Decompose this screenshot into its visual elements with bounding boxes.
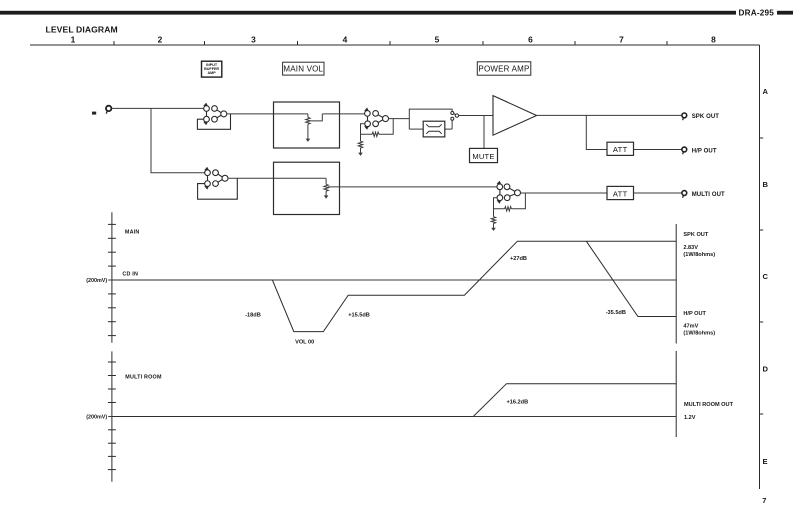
svg-text:H/P OUT: H/P OUT [692,148,717,154]
main volume pot VR1 [306,114,323,142]
svg-text:4: 4 [343,35,348,45]
column numbers 1-8 [71,35,717,45]
svg-text:7: 7 [619,35,624,45]
wire branch down to U2 [151,108,205,172]
svg-text:MULTI ROOM: MULTI ROOM [125,374,162,380]
wire power amp out to SPK [537,114,682,116]
ATT block (headphone) [607,142,634,155]
multi reference line [108,416,676,418]
svg-text:MULTI ROOM OUT: MULTI ROOM OUT [684,402,734,408]
wire branch to headphone attenuator [586,115,607,149]
svg-text:AMP: AMP [207,71,216,75]
MULTI VOL block [274,162,340,214]
svg-text:3: 3 [251,35,256,45]
main axis ticks [108,224,116,335]
source direct switch S1 [451,112,459,121]
MAIN VOL block [274,102,340,148]
ruler half ticks [114,41,667,45]
row letters A-E [763,87,769,466]
wire U4 out to ATT [520,192,607,194]
svg-text:ATT: ATT [613,189,628,198]
wire switch to power amp [459,115,493,117]
svg-text:A: A [763,87,769,96]
multi chart axis [111,351,113,481]
svg-text:1: 1 [71,35,76,45]
svg-text:5: 5 [435,35,440,45]
svg-text:MAIN: MAIN [125,229,140,235]
header bar left segment [0,11,736,15]
svg-text:LEVEL DIAGRAM: LEVEL DIAGRAM [46,25,118,35]
svg-text:DRA-295: DRA-295 [739,9,775,18]
svg-text:6: 6 [528,35,533,45]
main level trace [112,241,676,331]
svg-text:C: C [763,272,769,281]
input terminal [106,106,111,114]
svg-text:+27dB: +27dB [510,256,527,262]
svg-text:B: B [763,180,769,189]
svg-text:2: 2 [158,35,163,45]
SPK OUT terminal [682,113,687,120]
svg-text:-18dB: -18dB [245,312,261,318]
power amp triangle [493,96,537,136]
svg-text:7: 7 [762,496,766,505]
multi volume pot VR2 [324,178,329,198]
filter symbol [426,124,441,134]
svg-text:(1W/8ohms): (1W/8ohms) [683,331,715,337]
svg-text:POWER AMP: POWER AMP [478,64,529,73]
wire branch to mute [483,116,485,149]
wire wiper to U3 [322,113,364,115]
INPUT BUFFER AMP label box [202,61,222,77]
H/P OUT terminal [682,147,687,154]
wire U2 out to multi volume [228,177,326,179]
svg-text:8: 8 [711,35,716,45]
POWER AMP label box [477,62,531,75]
MUTE block [470,148,498,162]
svg-text:47mV: 47mV [683,324,698,330]
U3 feedback resistor network [358,119,393,156]
svg-text:2.83V: 2.83V [683,245,698,251]
wire ATT to MULTI OUT [634,192,682,194]
svg-text:MULTI OUT: MULTI OUT [692,192,725,198]
input source label [92,112,96,115]
MAIN VOL label box [283,62,324,75]
header bar right segment [777,11,793,15]
svg-text:(200mV): (200mV) [86,278,107,284]
svg-text:-35.5dB: -35.5dB [606,310,626,316]
svg-text:E: E [763,457,768,466]
ruler top line [30,44,760,46]
tone bypass loop wiring [409,109,452,129]
svg-text:ATT: ATT [613,145,628,154]
main chart right boundary [675,224,677,344]
multi chart right boundary [675,351,677,437]
svg-text:CD IN: CD IN [122,271,138,277]
amp U3 [364,108,388,130]
ATT block (multi) [607,186,634,199]
main trace branch to headphone level [586,241,676,316]
multi level trace [112,384,676,417]
svg-text:(1W/8ohms): (1W/8ohms) [683,252,715,258]
right border line [759,45,761,489]
svg-text:D: D [763,365,769,374]
svg-text:(200mV): (200mV) [86,415,107,421]
svg-text:MAIN VOL: MAIN VOL [283,65,323,74]
svg-text:+15.5dB: +15.5dB [348,312,370,318]
svg-text:SPK OUT: SPK OUT [683,232,708,238]
row divider ticks [760,138,764,414]
svg-text:SPK OUT: SPK OUT [692,114,720,120]
svg-text:MUTE: MUTE [472,152,494,161]
svg-text:H/P OUT: H/P OUT [683,311,706,317]
amp U4 [497,181,521,204]
svg-text:1.2V: 1.2V [684,415,696,421]
multi axis ticks [108,362,116,470]
svg-text:+16.2dB: +16.2dB [507,399,529,405]
wire U1 out to main volume [227,113,308,115]
wire ATT to HP OUT [634,149,682,151]
svg-text:VOL 00: VOL 00 [295,339,314,345]
buffer amp U2 [198,167,238,199]
wire multi wiper to U4 [328,186,497,188]
U4 feedback resistor network [491,193,525,231]
main chart axis [111,212,113,343]
filter block [423,121,445,137]
wire U3 out [388,118,409,120]
buffer amp U1 [197,103,230,130]
wire input to buffer amp U1 [112,107,204,109]
main reference line [108,279,676,281]
MULTI OUT terminal [682,191,687,198]
